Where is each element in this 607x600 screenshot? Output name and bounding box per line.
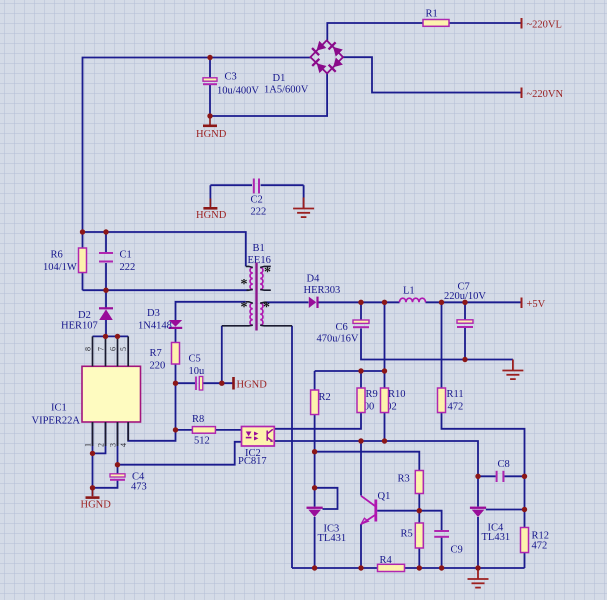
wire R11 rail to body (441, 302, 443, 388)
svg-text:~220VN: ~220VN (527, 89, 564, 100)
svg-text:Q1: Q1 (378, 491, 391, 502)
shunt regulator IC3 TL431 (307, 507, 347, 544)
wire C1 leads (105, 232, 107, 290)
svg-text:*: * (263, 300, 270, 315)
svg-text:TL431: TL431 (318, 533, 347, 544)
wire R9 bottom to IC2 collector (274, 413, 361, 429)
port ~220VN (522, 88, 564, 101)
svg-text:+5V: +5V (527, 299, 546, 310)
svg-text:C8: C8 (498, 459, 510, 470)
resistor R2 (311, 390, 331, 415)
capacitor C7 (444, 282, 486, 328)
resistor R10 (381, 388, 406, 413)
capacitor C5 (189, 354, 206, 391)
wire bridge right to 220VN port (343, 57, 521, 92)
svg-text:10u/400V: 10u/400V (217, 86, 259, 97)
wire C2 branch (210, 185, 303, 208)
svg-text:TL431: TL431 (482, 532, 511, 543)
wire R1 to 220VL port (449, 22, 521, 24)
wire secondary return vertical (291, 326, 293, 568)
svg-text:R6: R6 (51, 250, 63, 261)
wire D2 leads (105, 290, 107, 336)
wire IC4 ref (486, 509, 525, 511)
capacitor C1 (99, 250, 135, 274)
resistor R4 (378, 555, 405, 572)
svg-text:HGND: HGND (81, 500, 112, 511)
wire R12 bottom (524, 553, 526, 569)
resistor R11 (438, 388, 464, 413)
earth ground C2 (293, 198, 314, 218)
wire C5 right to HGND (203, 382, 233, 384)
wire bias return vertical (221, 326, 223, 383)
IC U1 VIPER22A body (32, 366, 141, 426)
capacitor C3 (203, 72, 259, 97)
winding upper-right (unconnected stubs) (260, 268, 263, 290)
svg-text:~220VL: ~220VL (527, 20, 562, 31)
svg-text:472: 472 (448, 402, 464, 413)
wire R7 to VDD node (175, 364, 177, 383)
resistor R1 (423, 9, 449, 27)
svg-text:R5: R5 (401, 529, 413, 540)
wire pin2 elbow (93, 422, 106, 453)
port +5V (522, 298, 546, 311)
svg-text:222: 222 (120, 262, 136, 273)
transistor Q1 (361, 491, 390, 524)
wire drain pin bar (93, 335, 129, 337)
svg-text:5: 5 (119, 347, 128, 351)
svg-text:473: 473 (131, 482, 147, 493)
svg-text:C3: C3 (225, 72, 237, 83)
transformer B1 (222, 243, 292, 331)
svg-text:10u: 10u (189, 366, 206, 377)
svg-text:470u/16V: 470u/16V (317, 334, 359, 345)
wire C8 to IC4 cathode (477, 476, 479, 506)
wire C3 bottom to HGND node (209, 84, 211, 116)
wire C8 leads (478, 475, 525, 477)
svg-text:2: 2 (97, 443, 106, 447)
bias winding lower-left (250, 303, 253, 325)
wire bridge top to AC rail (327, 23, 423, 41)
svg-text:1N4148: 1N4148 (138, 321, 172, 332)
wire R8 leads (176, 429, 242, 431)
capacitor C6 (317, 320, 370, 345)
wire R5 bottom (418, 548, 420, 568)
wire IC2 LED cathode return (118, 442, 242, 465)
wire Q1 base (377, 510, 419, 512)
wire IC3 ref loop (315, 488, 338, 509)
svg-text:HER303: HER303 (304, 285, 341, 296)
wire C3 top lead (209, 58, 211, 79)
svg-text:HER107: HER107 (61, 321, 98, 332)
capacitor C9 (434, 531, 463, 556)
wire D4 to 5V rail (318, 301, 399, 303)
wire C5 left lead (176, 382, 196, 384)
ground HGND C2 (196, 199, 227, 222)
svg-text:220: 220 (150, 361, 166, 372)
wire C9 elbow (419, 511, 441, 530)
wire IC2 emitter line to C8 (274, 441, 478, 476)
shunt regulator IC4 TL431 (470, 507, 510, 543)
wire R6 leads (82, 232, 84, 290)
wire DC+ rail to bridge left (83, 58, 311, 233)
inductor L1 (400, 298, 426, 302)
resistor R8 (192, 414, 215, 447)
wire C6 bottom to sec ground (361, 329, 513, 360)
wire bottom rail (292, 567, 525, 569)
svg-text:D4: D4 (307, 274, 321, 285)
svg-text:472: 472 (532, 541, 548, 552)
svg-text:PC817: PC817 (238, 456, 267, 467)
optocoupler IC2 PC817 (238, 427, 274, 468)
svg-text:R8: R8 (192, 414, 204, 425)
port ~220VL (522, 18, 562, 31)
svg-text:IC1: IC1 (51, 403, 67, 414)
svg-text:HGND: HGND (196, 129, 227, 140)
diode D2 (61, 307, 113, 331)
resistor R6 (43, 248, 87, 273)
svg-text:R11: R11 (447, 389, 464, 400)
svg-text:VIPER22A: VIPER22A (32, 416, 81, 427)
svg-text:D2: D2 (78, 310, 91, 321)
svg-text:C2: C2 (251, 195, 263, 206)
wire R3 bottom node (418, 494, 420, 524)
wire R2 column (314, 414, 316, 507)
wire R10 bottom (384, 413, 386, 442)
svg-text:7: 7 (97, 347, 106, 351)
wire R2 node to R3 top (315, 452, 420, 471)
svg-text:HGND: HGND (237, 380, 268, 391)
wire VDD node down to R8 node (175, 383, 177, 430)
wire pin3 down to C4 (117, 422, 119, 474)
svg-text:C6: C6 (336, 322, 348, 333)
svg-text:C5: C5 (189, 354, 201, 365)
wire R11 bottom to C8 right (442, 413, 525, 477)
resistor R12 (521, 528, 550, 553)
wire R9 top lead (360, 371, 362, 388)
diode D3 (138, 308, 182, 332)
wire R8 node down to pin4 (128, 422, 175, 441)
svg-text:1A5/600V: 1A5/600V (264, 85, 309, 96)
wire secondary winding to D4 (265, 301, 309, 303)
IC1 bottom pin stubs (93, 422, 129, 446)
svg-text:1: 1 (84, 443, 93, 447)
resistor R5 (401, 523, 424, 548)
capacitor C4 (110, 472, 147, 493)
svg-text:222: 222 (251, 207, 267, 218)
wire C6 top lead (360, 302, 362, 319)
svg-text:8: 8 (84, 347, 93, 351)
wire IC3 anode to rail (314, 517, 316, 568)
svg-text:*: * (241, 300, 248, 315)
svg-text:D3: D3 (147, 308, 160, 319)
svg-text:6: 6 (109, 347, 118, 351)
primary winding upper-left (250, 268, 253, 290)
wire C4 bottom elbow (93, 480, 118, 488)
svg-text:R10: R10 (388, 389, 406, 400)
diode D4 (304, 274, 341, 309)
wire Q1 emitter to rail (360, 524, 362, 568)
capacitor C2 (251, 179, 267, 218)
wire C7 leads (464, 302, 466, 359)
wire L1 to 5V port (426, 301, 522, 303)
svg-text:B1: B1 (253, 243, 265, 254)
svg-text:3: 3 (109, 443, 118, 447)
IC1 top pin stubs (93, 336, 129, 366)
secondary winding lower-right (260, 303, 263, 325)
svg-text:C9: C9 (451, 545, 463, 556)
earth ground bottom (468, 568, 489, 588)
wire C8 right down through R12 (524, 476, 526, 527)
wire Q1 collector vertical (360, 441, 362, 496)
wire C9 bottom (441, 538, 443, 569)
svg-text:R9: R9 (366, 389, 378, 400)
svg-text:R2: R2 (319, 392, 331, 403)
svg-text:R4: R4 (380, 555, 393, 566)
ground HGND C5 (rotated) (232, 377, 267, 391)
svg-text:*: * (264, 265, 271, 280)
wire D3 to R7 (175, 329, 177, 343)
bridge rectifier D1 (264, 40, 343, 95)
svg-text:4: 4 (119, 443, 128, 447)
svg-text:C1: C1 (120, 250, 132, 261)
wire primary rail (83, 232, 246, 266)
resistor R7 (150, 343, 180, 372)
svg-text:R7: R7 (150, 348, 162, 359)
svg-text:HGND: HGND (196, 210, 227, 221)
wire snubber bottom to transformer (83, 289, 249, 291)
svg-text:104/1W: 104/1W (43, 262, 77, 273)
resistor R9 (357, 388, 378, 413)
wire bridge bottom to C3 node (210, 74, 327, 117)
earth ground secondary (502, 360, 523, 380)
wire bias winding to D3 (176, 302, 246, 320)
svg-text:R1: R1 (426, 9, 438, 20)
resistor R3 (398, 471, 424, 494)
svg-text:512: 512 (194, 436, 210, 447)
wire feedback divider top (315, 371, 385, 390)
wire IC4 anode to rail (477, 517, 479, 568)
svg-text:R3: R3 (398, 474, 410, 485)
ground HGND pin1 (81, 488, 112, 511)
wire pin1 down to HGND node (92, 422, 94, 496)
core (255, 263, 257, 331)
svg-text:L1: L1 (403, 286, 415, 297)
capacitor C8 (497, 459, 510, 482)
ground HGND C3 (196, 116, 227, 140)
svg-text:D1: D1 (273, 73, 286, 84)
wire rail down to fb node and R10 (384, 302, 386, 388)
svg-text:*: * (241, 277, 248, 292)
